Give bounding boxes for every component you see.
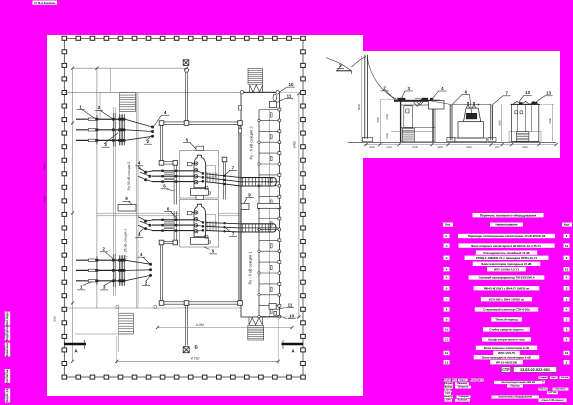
incoming overhead line group upper (items 1-4) [76, 118, 125, 120]
svg-text:Тёплый период: Тёплый период [495, 318, 518, 322]
svg-text:11: 11 [445, 338, 448, 342]
dimension 8050 [158, 327, 293, 329]
building wall top [64, 92, 278, 94]
cabinet item 9 left [118, 205, 136, 212]
svg-text:Лист: Лист [551, 376, 556, 379]
incoming wire curve [326, 58, 342, 65]
item 4 panel [429, 101, 445, 110]
cell box item 11 top [269, 102, 276, 108]
fence column posts [62, 36, 67, 40]
corridor wall x97 [96, 68, 98, 308]
section divider wall [97, 212, 241, 214]
duct node V1 end [159, 161, 164, 166]
svg-text:2400: 2400 [521, 146, 528, 149]
equipment table title [473, 213, 544, 217]
svg-text:10: 10 [289, 313, 294, 318]
title block [444, 379, 452, 382]
extension line x110 [109, 68, 111, 93]
svg-text:8760: 8760 [293, 141, 297, 148]
duct node H4 right [173, 161, 178, 166]
bus duct V2 from axis B [184, 72, 186, 122]
svg-text:12: 12 [525, 90, 530, 95]
svg-text:13: 13 [546, 91, 551, 96]
stair landing upper-left [100, 93, 119, 120]
svg-text:12: 12 [445, 351, 449, 355]
svg-text:Волкова: Волкова [458, 399, 468, 402]
svg-text:ГИП: ГИП [446, 399, 451, 402]
duct node H3 right [173, 240, 178, 245]
svg-text:Компоновка оборудования: Компоновка оборудования [498, 396, 532, 399]
svg-text:Петренко: Петренко [458, 386, 469, 389]
svg-text:НУГЗМ: НУГЗМ [548, 391, 556, 394]
wall stub below building [118, 308, 120, 352]
svg-text:Стержневой изолятор СТИ-6-20в: Стержневой изолятор СТИ-6-20в [483, 308, 530, 312]
svg-text:Лист 2: Лист 2 [539, 388, 547, 391]
svg-text:тп В.2-Компон.: тп В.2-Компон. [34, 1, 56, 5]
table header [443, 223, 453, 227]
KTP cells building items 12 13 [509, 132, 541, 142]
staircase lower-right [248, 326, 264, 341]
suspension V hangers [414, 102, 424, 107]
svg-text:200: 200 [494, 146, 500, 149]
neck cap [196, 146, 204, 150]
building columns [400, 101, 402, 142]
svg-text:Наименование: Наименование [495, 223, 517, 227]
dimension 8760 right [298, 94, 300, 317]
duct node V4 top [222, 157, 227, 162]
transformer lower (item 5) [194, 204, 206, 237]
left margin stamp texts [5, 312, 10, 326]
three-phase cable run lower (items 4,6,7) [152, 219, 196, 221]
hall corner nodes [240, 91, 243, 94]
span wires [414, 98, 450, 104]
svg-text:Силовой трансформатор ТМ-630/1: Силовой трансформатор ТМ-630/10/0,4 [479, 276, 535, 280]
long cabinet at divider [258, 203, 280, 208]
svg-text:11: 11 [287, 93, 292, 98]
svg-text:Н.контр.: Н.контр. [444, 395, 454, 398]
svg-text:2400: 2400 [465, 146, 472, 149]
dimension 4750 [117, 360, 278, 362]
svg-text:Блок изоляторов проходных 10 к: Блок изоляторов проходных 10 кВ [482, 262, 532, 266]
transformer bay upper (item 5) [180, 151, 219, 199]
table rows [458, 234, 555, 238]
svg-text:Блок опорных изоляторов 6 кВ И: Блок опорных изоляторов 6 кВ ИООС-10-3,7… [471, 244, 542, 248]
bus duct H3 short [159, 240, 176, 242]
aux box [187, 211, 192, 215]
dimension line left vertical [72, 68, 74, 361]
duct node H2-V8 [238, 301, 243, 306]
wall junction circles [116, 306, 119, 309]
svg-text:4 750: 4 750 [191, 356, 200, 360]
section mark A left [64, 343, 86, 345]
dimension line top [73, 67, 187, 69]
svg-text:Взам.и: Взам.и [3, 345, 6, 353]
incoming overhead line group lower (items 1-4) [76, 259, 125, 261]
svg-text:Переходы полимерными изолятора: Переходы полимерными изоляторами 10 кВ 4… [468, 234, 546, 238]
svg-text:Листов 2: Листов 2 [555, 388, 566, 391]
corridor wall x114 [112, 107, 114, 296]
duct start circle [185, 68, 189, 72]
svg-text:Блок опорных изоляторов 6 кВ: Блок опорных изоляторов 6 кВ [484, 346, 529, 350]
svg-text:9000: 9000 [357, 103, 361, 110]
cooler [191, 238, 209, 245]
svg-text:Листов: Листов [561, 376, 569, 379]
ramp zigzag lower-right [249, 318, 262, 326]
svg-text:2400: 2400 [44, 196, 47, 203]
svg-text:8.050: 8.050 [196, 323, 204, 327]
svg-text:Подп.д: Подп.д [3, 329, 6, 337]
svg-text:Шкаф оперативного тока: Шкаф оперативного тока [488, 338, 525, 342]
bus duct V7 lower to cabinet [173, 211, 175, 240]
switchgear hall RU-6kV outline [241, 92, 279, 317]
platform [206, 166, 216, 178]
svg-text:Блок проходных изоляторов 6 кВ: Блок проходных изоляторов 6 кВ [482, 355, 530, 359]
aux box [187, 162, 192, 166]
corridor wall x137 [135, 93, 137, 308]
svg-text:2400: 2400 [436, 146, 443, 149]
svg-text:ЯКНО-6(10)У1 с ВНА-П-10/630 зп: ЯКНО-6(10)У1 с ВНА-П-10/630 зп [484, 286, 530, 290]
axis symbol B top [183, 60, 189, 66]
svg-text:3000: 3000 [54, 316, 57, 322]
svg-text:4425: 4425 [498, 120, 501, 126]
svg-text:«Прима»: «Прима» [510, 385, 521, 388]
svg-text:3190: 3190 [549, 118, 552, 124]
strain columns transformer area [449, 104, 451, 140]
svg-text:Ру - 6 кВ секция 2: Ру - 6 кВ секция 2 [249, 126, 254, 160]
bus duct V6 to axis B bottom [184, 305, 186, 345]
duct node H3 left [159, 240, 164, 245]
cell box item 11 bottom [269, 303, 276, 309]
duct node H2-V6 [184, 301, 189, 306]
staircase lower-left [119, 313, 134, 334]
bus duct V3-V8 right riser [238, 124, 240, 301]
svg-text:Ру 35 кВ секция 2: Ру 35 кВ секция 2 [127, 162, 131, 191]
svg-text:Перечень основного оборудовани: Перечень основного оборудования [480, 213, 537, 217]
elevation stairs [402, 128, 414, 142]
svg-text:РЛНД-1-10Б/400 У1 с приводом П: РЛНД-1-10Б/400 У1 с приводом ПРН3-10 У1 [476, 256, 538, 260]
cooler [191, 189, 209, 196]
svg-text:ИПУ-10/630-7,5 У1: ИПУ-10/630-7,5 У1 [494, 267, 519, 271]
dimension column structure1 [380, 99, 382, 142]
lower landing edge [75, 333, 134, 335]
svg-text:4785: 4785 [377, 117, 380, 123]
svg-text:СТР: СТР [502, 368, 510, 372]
document number [502, 367, 511, 372]
anchor traverse item 1 [336, 70, 352, 72]
svg-text:Ру - 35 кВ секция 1: Ру - 35 кВ секция 1 [124, 228, 128, 259]
svg-text:ИП-10-630/3150: ИП-10-630/3150 [496, 360, 518, 364]
bus duct H2 lower [159, 301, 241, 303]
svg-text:2.: 2. [445, 234, 448, 238]
svg-text:Поз.: Поз. [445, 223, 451, 227]
svg-text:№док.: №док. [459, 378, 466, 381]
ramp zigzag upper-right [250, 85, 263, 92]
transformer item 6 elevation [455, 138, 487, 142]
svg-text:Ру - 6 кВ секция 1: Ру - 6 кВ секция 1 [248, 251, 253, 285]
bus duct V5 lower-left [159, 244, 161, 302]
svg-text:1200: 1200 [386, 133, 389, 139]
svg-text:13: 13 [445, 360, 449, 364]
building wall bottom [64, 307, 241, 309]
building body section [401, 105, 435, 142]
svg-text:Сидоров: Сидоров [458, 395, 469, 398]
svg-text:Форм.: Форм. [3, 392, 6, 399]
svg-text:Разъединитель линейный 10 кВ: Разъединитель линейный 10 кВ [483, 251, 529, 255]
svg-text:Разраб.: Разраб. [444, 382, 453, 385]
svg-text:Иванова: Иванова [457, 382, 467, 385]
pole height dimension [360, 56, 362, 142]
duct node H1-V2 [184, 121, 189, 126]
svg-text:11: 11 [288, 302, 293, 307]
platform [206, 215, 216, 227]
svg-text:Изм.Кол.: Изм.Кол. [443, 378, 453, 381]
wire fence outline [64, 38, 303, 377]
axis symbol B bottom [183, 347, 189, 353]
elevation ground line [348, 141, 556, 143]
bus duct V9 upper to cabinet [173, 165, 175, 204]
svg-text:Кол.: Кол. [564, 223, 570, 227]
file name label chip [33, 1, 58, 5]
duct node H1-V1 [159, 121, 164, 126]
portal beam item 3 [394, 100, 440, 102]
elevation paper sheet [363, 51, 560, 158]
cabinet item 9 right [240, 203, 249, 209]
main plan paper sheet [47, 35, 363, 396]
svg-text:КСО-366 с ВНА-10/630 зп: КСО-366 с ВНА-10/630 зп [489, 297, 524, 301]
duct clamps [239, 106, 242, 111]
catenary pole to portal [367, 58, 403, 102]
bottom dimension chain [364, 144, 557, 146]
svg-text:2400: 2400 [368, 146, 375, 149]
svg-text:Т.контр: Т.контр [444, 389, 453, 392]
svg-text:Подп.: Подп. [470, 378, 477, 381]
svg-text:Стойка средств защиты: Стойка средств защиты [489, 328, 524, 332]
bus duct V1 left [159, 124, 161, 160]
pole [364, 55, 366, 139]
svg-text:«Урал-ГИП»проект: «Урал-ГИП»проект [541, 399, 565, 402]
svg-text:3700: 3700 [386, 114, 389, 120]
svg-text:Стадия: Стадия [539, 376, 547, 379]
dimension transformer height [501, 104, 503, 142]
svg-text:Соглас: Соглас [3, 371, 6, 380]
svg-text:7480: 7480 [44, 164, 47, 170]
KTP bottom grille [517, 132, 529, 142]
svg-text:Инв.по: Инв.по [3, 314, 6, 322]
svg-text:2500: 2500 [411, 146, 418, 149]
dimension KTP height [551, 104, 553, 141]
svg-text:16: 16 [565, 244, 569, 248]
svg-text:13.03.02-022-001: 13.03.02-022-001 [520, 368, 550, 372]
neck cap [196, 195, 204, 199]
svg-text:18: 18 [565, 351, 569, 355]
staircase upper-right [248, 69, 263, 85]
transformer upper (item 5) [194, 155, 206, 188]
bus duct H1 upper [159, 121, 241, 123]
svg-text:ГАП: ГАП [445, 392, 450, 395]
svg-text:Дата: Дата [478, 378, 484, 381]
staircase upper-left [119, 93, 135, 112]
wire to pole [352, 57, 367, 68]
switchgear cells column [258, 110, 260, 318]
svg-text:1500: 1500 [386, 146, 392, 149]
cell box item 10 bottom [274, 312, 277, 316]
section mark A right [282, 343, 304, 345]
svg-text:Провер.: Провер. [444, 386, 454, 389]
duct node H2-V5 [159, 301, 164, 306]
bus duct V4 middle [222, 161, 224, 200]
three-phase cable run upper (items 4,6,7) [152, 170, 196, 172]
svg-text:10: 10 [445, 328, 449, 332]
transformer bay lower (item 5) [180, 200, 219, 248]
svg-text:10: 10 [289, 82, 294, 87]
duct node H1-V3 [238, 121, 243, 126]
bus duct H4 upper short [163, 161, 174, 163]
svg-text:16: 16 [565, 267, 569, 271]
